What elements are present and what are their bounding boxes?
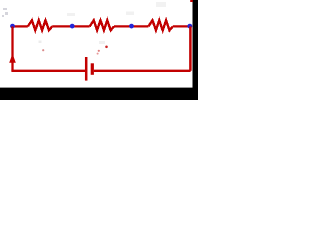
node b faint label bbox=[67, 13, 75, 16]
wire: top-left segment (node a to R1) bbox=[13, 25, 28, 27]
wire: R2 to node c bbox=[114, 25, 148, 27]
current direction arrow on left wire bbox=[9, 54, 16, 63]
battery positive plate (long) bbox=[85, 57, 88, 81]
bottom black margin band bbox=[0, 88, 198, 100]
resistor R2 bbox=[90, 20, 114, 30]
battery negative plate (short) bbox=[91, 63, 94, 75]
wire: left vertical branch bbox=[11, 26, 13, 70]
wire: battery to bottom-right corner bbox=[94, 70, 191, 72]
node c junction dot bbox=[129, 24, 134, 29]
background canvas bbox=[0, 0, 198, 100]
emf source faint label bbox=[97, 41, 108, 55]
wire: R1 to node b bbox=[52, 25, 89, 27]
node a junction dot bbox=[10, 24, 15, 29]
wire: bottom-left segment to battery bbox=[11, 70, 86, 72]
node d junction dot bbox=[187, 24, 192, 29]
resistor R3 bbox=[148, 20, 172, 30]
node c faint label bbox=[126, 12, 134, 16]
node b junction dot bbox=[70, 24, 75, 29]
node a faint label bbox=[2, 8, 8, 17]
stray red tick top-right bbox=[190, 0, 193, 2]
current I faint label bbox=[39, 41, 45, 52]
wire: R3 to top-right corner bbox=[173, 25, 191, 27]
resistor R1 bbox=[28, 20, 52, 30]
wire: right vertical branch bbox=[189, 26, 192, 70]
resistor R3 faint label bbox=[156, 2, 166, 7]
right black margin band bbox=[193, 0, 199, 88]
